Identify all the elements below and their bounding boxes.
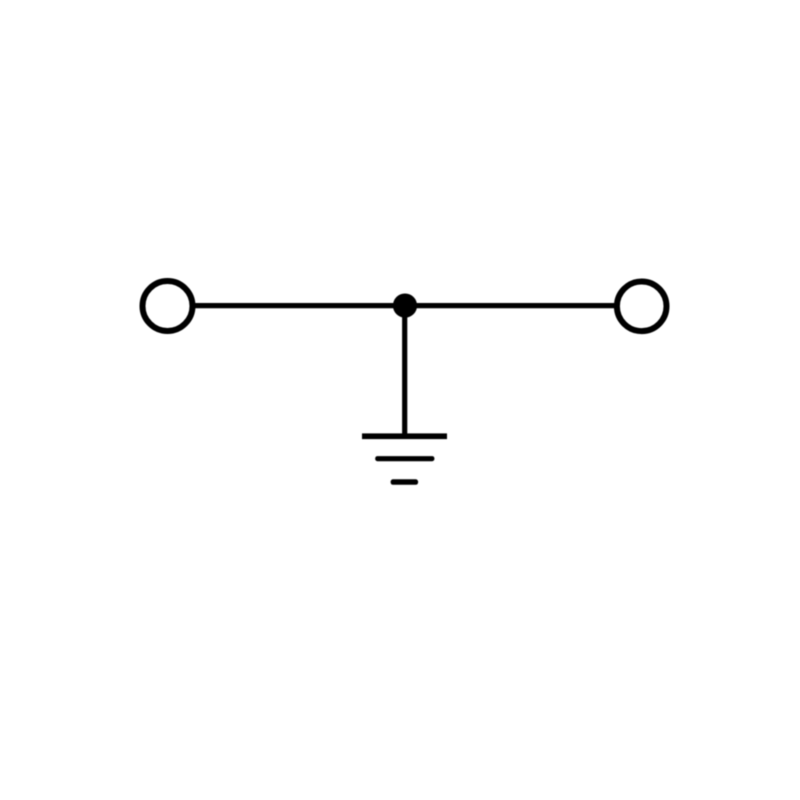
wire (junction to right terminal) [405,303,615,308]
terminal X1 (left connection point) [143,281,193,331]
ground (earth symbol, three bars) [362,433,447,484]
wire (junction down to ground) [402,306,407,437]
terminal X2 (right connection point) [617,282,667,332]
node junction (solder dot) [393,294,417,318]
wire (left terminal to junction) [195,303,406,308]
